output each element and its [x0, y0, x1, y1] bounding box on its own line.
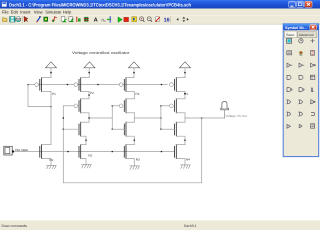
junction on Vn bus: [67, 151, 68, 152]
tb icon: note: [52, 17, 56, 22]
vdd supply VDD4: [180, 62, 191, 78]
menu bar: [0, 9, 320, 16]
tb icon: select arrow: [24, 16, 28, 22]
ground GND4: [181, 165, 191, 169]
row7: misc3: [311, 112, 315, 115]
transistor N2 inverter: [79, 122, 89, 144]
svg-text:File: File: [2, 9, 9, 14]
svg-text:Advanced: Advanced: [299, 33, 314, 37]
transistor P4 top: [170, 78, 186, 92]
junction on Vp bus: [161, 84, 162, 85]
row4: table: [310, 75, 314, 79]
wire: stage3 gate row2: [112, 105, 119, 107]
tb icon: stop: [124, 17, 129, 21]
row1: button: [287, 38, 292, 43]
junction on Vn bus: [161, 151, 162, 152]
svg-text:Dsch3.1: Dsch3.1: [184, 224, 197, 228]
svg-text:Dsch3.1 - C:\Program Files\MIC: Dsch3.1 - C:\Program Files\MICROWIND3.1\…: [9, 2, 191, 8]
svg-text:Insert: Insert: [20, 9, 31, 14]
svg-text:N3: N3: [136, 158, 140, 162]
svg-text:16: 16: [164, 18, 170, 24]
tb icon: probe: [109, 16, 111, 22]
wire: stage4 input node: [160, 106, 162, 129]
row8: latch: [287, 124, 290, 128]
row3: not2: [311, 63, 314, 67]
tb icon: open folder: [3, 18, 7, 22]
tab Advanced: [298, 32, 317, 38]
ground GND2: [82, 165, 92, 169]
row2: led red: [299, 53, 302, 55]
wire: stage2 rail r1-r2: [88, 92, 90, 99]
wire: feedback loop: [63, 106, 201, 183]
svg-text:Voltage controlled oscillator: Voltage controlled oscillator: [72, 51, 130, 55]
Vp bias bus: [28, 84, 167, 86]
transistor N4 inverter: [175, 122, 185, 144]
row5: xor: [311, 88, 314, 92]
tb icon: zoom fit: [156, 17, 160, 22]
separator: [21, 16, 23, 23]
svg-text:N1: N1: [49, 158, 53, 162]
vdd supply VDD1: [46, 62, 57, 78]
palette close: [310, 25, 317, 30]
transistor N4b bias: [175, 145, 185, 165]
svg-text:Symbol lib...: Symbol lib...: [285, 26, 307, 30]
Vn bias bus: [13, 151, 175, 153]
wire: stage2 gate row3: [63, 128, 79, 130]
transistor N2b bias: [79, 145, 86, 166]
tb icon: run: [118, 17, 122, 22]
transistor N3 inverter: [124, 122, 134, 144]
row5: nand2: [299, 88, 303, 92]
tb icon: delete: [76, 17, 78, 22]
row2: 7seg: [311, 51, 315, 56]
palette title bar: [283, 24, 319, 30]
vdd supply VDD2: [84, 62, 95, 78]
svg-text:N4: N4: [186, 158, 190, 162]
svg-text:P1: P1: [52, 92, 56, 96]
vdd supply VDD3: [129, 62, 140, 78]
svg-text:Help: Help: [63, 9, 72, 14]
svg-text:Draw commands: Draw commands: [2, 224, 28, 228]
tb icon: zoom in: [140, 17, 144, 21]
ground GND3: [130, 166, 140, 170]
transistor N3b bias: [124, 145, 134, 166]
wire: stage3 output: [133, 113, 135, 122]
tb icon: printer: [16, 18, 21, 21]
title bar: [0, 0, 320, 9]
wire: stage3 gate row3: [112, 128, 124, 130]
palette icons: [287, 38, 316, 128]
svg-text:Voltage VN Osc: Voltage VN Osc: [225, 114, 247, 118]
row4: and gate2: [299, 75, 303, 79]
close button: [305, 1, 312, 7]
row6: or: [287, 100, 291, 104]
transistor P3 top: [119, 78, 134, 92]
svg-text:Vco input: Vco input: [15, 148, 28, 152]
tb icon: save floppy: [10, 17, 15, 22]
svg-text:P2: P2: [90, 91, 94, 95]
row6: or2: [299, 100, 303, 104]
junction on Vn bus: [112, 151, 113, 152]
clock source Vco input: [4, 146, 12, 155]
junction on Vp bus: [97, 84, 98, 85]
tb icon: grid red: [84, 17, 88, 22]
minimize button: [289, 1, 296, 7]
tb icon: paste green: [69, 17, 73, 22]
row1: vdd: [310, 39, 314, 43]
node dot: [50, 106, 51, 107]
row6: nor: [311, 100, 314, 104]
svg-text:View: View: [34, 9, 43, 14]
wire: stage1 diode connection: [28, 85, 51, 107]
svg-text:n: n: [101, 17, 104, 23]
svg-text:Simulate: Simulate: [45, 9, 62, 14]
node dot: [63, 129, 64, 130]
svg-text:P3: P3: [136, 92, 140, 96]
node dot: [63, 117, 64, 118]
row4: and gate: [287, 75, 291, 79]
transistor P3b inverter: [119, 99, 134, 113]
transistor N1: [40, 145, 51, 166]
svg-text:Edit: Edit: [11, 9, 19, 14]
tab Basic: [285, 31, 297, 38]
toolbar: [0, 15, 320, 25]
wire: stage4 gate row2: [161, 105, 170, 107]
node dot: [201, 117, 202, 118]
row8: latch2: [299, 124, 302, 128]
row1: clock: [299, 39, 303, 43]
ground GND1: [47, 165, 57, 169]
row3: buffer: [299, 63, 304, 67]
tb icon: add part: [44, 17, 48, 21]
row3: not gate: [287, 63, 292, 67]
status bar: [0, 220, 320, 230]
transistor P4b inverter: [170, 99, 185, 113]
svg-text:Basic: Basic: [286, 33, 294, 37]
row5: nand: [287, 88, 291, 92]
row8: ff: [311, 124, 315, 128]
separator: [170, 16, 172, 23]
transistor P2 top: [74, 78, 89, 92]
tb icon: zoom out: [147, 17, 151, 21]
tb icon: wire pencil: [37, 17, 41, 22]
tb icon: copy page green: [61, 17, 65, 22]
wire: stage2 gate row2: [63, 105, 74, 107]
row7: mux2: [299, 112, 303, 116]
wire: stage2 output: [88, 113, 90, 122]
wire: stage4 output to lamp: [184, 113, 186, 122]
transistor P2b inverter: [74, 99, 89, 113]
tb icon: timing: [132, 17, 137, 22]
svg-text:N2: N2: [88, 154, 92, 158]
maximize button: [297, 1, 304, 7]
wire: stage4 gate row3: [161, 128, 175, 130]
node dot bus start: [27, 84, 28, 85]
transistor P1: [35, 78, 51, 92]
svg-text:A: A: [94, 18, 98, 24]
junction on Vp bus: [67, 84, 68, 85]
wire: stage1 drain rail: [50, 92, 52, 145]
wire: stage3 input node: [111, 106, 113, 129]
nav arrows: [176, 18, 178, 21]
row2: keyboard: [287, 51, 292, 55]
window body: [283, 24, 319, 157]
app icon: [2, 2, 8, 8]
lamp output probe: [221, 102, 229, 118]
row7: mux: [287, 112, 291, 116]
